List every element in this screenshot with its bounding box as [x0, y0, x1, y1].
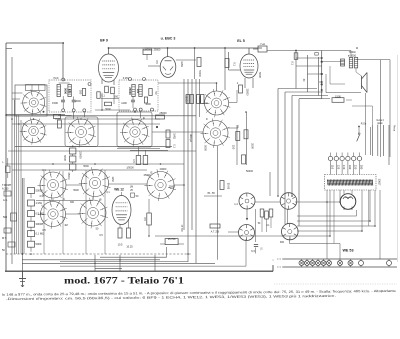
- svg-text:1M: 1M: [130, 187, 133, 189]
- resistor bus pair b: [190, 95, 193, 104]
- wire row y114: [6, 113, 65, 115]
- node speaker bus dots: [321, 61, 323, 63]
- fine print line 1: [2, 289, 396, 297]
- svg-text:25000: 25000: [144, 174, 151, 177]
- wire IF2 link right: [158, 82, 217, 84]
- wire right v380: [380, 60, 382, 157]
- wire S11 right: [174, 184, 184, 186]
- wire cath v237: [236, 125, 238, 165]
- wire drop at 194: [194, 48, 196, 79]
- svg-text:50000: 50000: [36, 189, 44, 193]
- wire mid cluster leads: [261, 217, 263, 232]
- node junction EBC3 topcap: [167, 47, 169, 49]
- wire IF2 bottom drop: [140, 111, 142, 118]
- svg-text:50000: 50000: [246, 170, 254, 173]
- wire ladder v318: [318, 57, 320, 96]
- wire L-bend d: [299, 98, 322, 100]
- resistor mid cluster a: [260, 209, 264, 217]
- heater lamp extra1: [359, 261, 364, 266]
- fine print line 2: [6, 294, 336, 301]
- wire IF2 drop to S5: [216, 83, 218, 91]
- wire spk v365: [364, 93, 366, 155]
- wire P3 left: [228, 231, 239, 233]
- resistor below S4 b: [143, 156, 148, 165]
- wire row y124: [12, 123, 160, 125]
- ground antenna symbol: [19, 272, 26, 287]
- wire P1 drop: [255, 209, 257, 242]
- wire rectifier legs: [343, 190, 345, 194]
- svg-text:1MΩ: 1MΩ: [111, 176, 114, 181]
- svg-text:5000: 5000: [63, 88, 67, 94]
- svg-text:25000: 25000: [159, 111, 167, 115]
- wire below S4 h2: [130, 149, 168, 151]
- wire right quad v1: [371, 125, 373, 156]
- tube P1: [239, 193, 255, 209]
- resistor EL5 leg: [239, 85, 243, 93]
- wire EL5 top: [248, 48, 250, 54]
- coil IF2 primary: [132, 85, 135, 97]
- resistor bus pair c: [197, 95, 200, 104]
- wire P1 cathode arrow: [246, 209, 248, 218]
- svg-text:al 500Ω: al 500Ω: [348, 54, 357, 57]
- wire L-bend c: [292, 95, 328, 97]
- svg-text:A 250: A 250: [2, 188, 9, 191]
- node IF2 bottom terminal 3: [151, 108, 154, 111]
- transformer output primary: [349, 58, 352, 68]
- wire ladder rung4: [319, 81, 322, 83]
- wire fb jog: [352, 105, 372, 107]
- svg-text:25000: 25000: [246, 89, 249, 96]
- wire S6 bottom drop: [216, 146, 218, 260]
- wire row y151: [8, 150, 196, 152]
- wire below S4 h1: [117, 147, 160, 149]
- wire volume leads: [148, 199, 150, 213]
- wire bus x196: [195, 79, 197, 263]
- wire drop x44: [43, 171, 45, 254]
- wire IF1 bottom link: [58, 115, 72, 117]
- svg-text:girad.: girad.: [377, 122, 383, 125]
- wire bottom y263: [22, 262, 215, 264]
- page edge faint right: [397, 55, 399, 262]
- wire WE12 top: [121, 192, 123, 196]
- coil field choke: [341, 59, 345, 66]
- resistor under BF9 c: [97, 92, 100, 99]
- svg-text:1200: 1200: [121, 102, 127, 105]
- component under BF9 d: [105, 102, 112, 106]
- wire under BF9 h2: [95, 109, 130, 111]
- capacitor IF2 trimmer: [131, 100, 135, 102]
- wire cath v246: [245, 112, 247, 165]
- wire EL5 legs: [244, 78, 246, 88]
- resistor below S4 a: [136, 156, 141, 165]
- svg-text:0,25: 0,25: [40, 195, 45, 198]
- transformer output secondary: [354, 58, 357, 68]
- resistor WE12 a: [118, 228, 122, 238]
- resistor bus pair a: [186, 95, 189, 104]
- wire bottom y268: [95, 268, 122, 270]
- wire left border vertical bus: [5, 43, 7, 271]
- wire bm y236: [155, 235, 330, 237]
- wire drop x63: [62, 171, 64, 254]
- resistor cath a: [236, 132, 240, 141]
- node IF2 bottom terminal 2: [139, 108, 142, 111]
- wire ladder rung2: [296, 65, 322, 67]
- resistor BF9 cathode: [111, 87, 115, 94]
- resistor AT: [210, 224, 220, 228]
- svg-text:1MΩ: 1MΩ: [180, 61, 184, 67]
- wire ladder v296: [295, 51, 297, 89]
- svg-text:5000: 5000: [63, 155, 67, 161]
- wire grid bus y48: [109, 47, 263, 49]
- shield box S4: [117, 112, 152, 147]
- wire second left vertical: [11, 57, 13, 264]
- svg-text:0,5: 0,5: [143, 217, 147, 221]
- svg-text:u. EBC 3: u. EBC 3: [161, 37, 176, 41]
- wire heater left stub: [277, 258, 283, 260]
- wire S8 S11 link: [109, 183, 148, 185]
- speaker cone: [362, 73, 368, 93]
- switch mains selector: [357, 135, 360, 142]
- resistor ladder: [294, 53, 298, 60]
- svg-text:1M: 1M: [64, 224, 67, 227]
- svg-text:160: 160: [348, 165, 352, 170]
- svg-text:II M.F.: II M.F.: [123, 77, 130, 80]
- resistor cath b: [244, 130, 248, 139]
- wire row y164: [6, 163, 184, 165]
- wire antenna stub: [6, 48, 12, 50]
- wire row y200: [36, 200, 93, 202]
- svg-text:15.700: 15.700: [168, 238, 176, 241]
- component left box4: [8, 242, 15, 247]
- transformer IF2 shield dashed box: [119, 80, 158, 111]
- wire S5 right stub: [229, 102, 237, 104]
- resistor bias box: [165, 239, 178, 245]
- tube WE12 envelope: [112, 196, 131, 225]
- wire bottom y266: [60, 265, 246, 267]
- svg-text:25000: 25000: [128, 87, 132, 95]
- wire spk top right: [356, 59, 390, 61]
- svg-text:F: F: [143, 117, 145, 121]
- svg-text:0,1 MΩ: 0,1 MΩ: [36, 232, 44, 236]
- wire P2-P4 link: [287, 210, 289, 224]
- svg-text:220: 220: [354, 165, 358, 170]
- wire bm y226: [297, 225, 375, 227]
- wire S7 S8 link: [66, 184, 82, 186]
- svg-text:1MΩ: 1MΩ: [173, 133, 177, 139]
- svg-text:15.700: 15.700: [180, 224, 182, 232]
- svg-text:0,5: 0,5: [155, 60, 159, 64]
- svg-text:5000: 5000: [258, 72, 262, 78]
- rule main bottom: [5, 270, 273, 272]
- wire spk link3: [325, 74, 327, 93]
- component left ant coil: [6, 166, 11, 173]
- svg-text:35-55: 35-55: [227, 183, 230, 190]
- tube P4: [282, 223, 299, 240]
- wire IF1 internal top: [59, 82, 70, 84]
- svg-text:125: 125: [336, 165, 340, 170]
- node IF1 bottom terminal 2: [72, 109, 75, 112]
- svg-text:50000: 50000: [198, 96, 202, 104]
- wire IF1 bottom drop2: [73, 112, 75, 119]
- wire bus x188: [187, 79, 189, 262]
- node IF1 top terminal: [62, 78, 65, 81]
- svg-text:BF 9: BF 9: [100, 39, 108, 43]
- svg-text:470: 470: [68, 89, 72, 94]
- tube P3: [239, 225, 255, 241]
- wire bottom stub x120: [119, 255, 121, 271]
- wire P4 drop: [289, 239, 291, 244]
- wire S5 left stub: [205, 102, 209, 104]
- wire ground pair a: [21, 178, 23, 277]
- wire bottom stub x95: [94, 255, 96, 271]
- svg-text:20000: 20000: [78, 151, 82, 159]
- svg-text:0,1: 0,1: [233, 62, 237, 66]
- svg-text:7+H: 7+H: [260, 42, 265, 46]
- resistor bus pair d: [201, 95, 204, 104]
- resistor col right of S4 a: [166, 130, 170, 138]
- component left box2: [11, 213, 17, 221]
- wire bm y216: [356, 210, 358, 216]
- svg-text:I M.F.: I M.F.: [53, 77, 59, 80]
- svg-text:M.T.: M.T.: [2, 237, 7, 240]
- svg-text:300: 300: [280, 241, 285, 244]
- svg-text:1,4: 1,4: [234, 203, 238, 206]
- capacitor IF1 trimmer 1: [61, 100, 65, 102]
- shield box S3: [65, 117, 98, 147]
- transformer winding hatch: [327, 180, 373, 186]
- node IF1 right terminal: [88, 83, 91, 86]
- tube socket S9: [38, 199, 67, 229]
- tube socket S11: [144, 169, 176, 201]
- wire AVC dashed: [6, 253, 191, 255]
- wire v370 drop: [370, 127, 372, 155]
- wire left v3: [18, 115, 20, 254]
- wire EBC3 topcap: [167, 48, 169, 57]
- svg-text:300 με: 300 με: [189, 134, 193, 143]
- wire L-bend b: [285, 91, 323, 93]
- coil IF2 secondary: [139, 85, 142, 97]
- svg-text:5000: 5000: [36, 242, 42, 246]
- tube socket S4: [120, 117, 149, 146]
- wire antenna top bus: [6, 42, 63, 44]
- svg-text:1/5000: 1/5000: [126, 167, 134, 170]
- svg-text:E: E: [150, 171, 152, 175]
- wire IF1 trim leads: [62, 96, 64, 100]
- svg-text:0,5 MΩ: 0,5 MΩ: [36, 212, 44, 216]
- wire drop to IF1 top: [62, 43, 64, 80]
- wire S4 drops: [138, 147, 140, 156]
- svg-text:1500: 1500: [52, 101, 58, 105]
- svg-text:35 - 55: 35 - 55: [207, 192, 215, 195]
- transformer primary taps: [328, 153, 361, 175]
- rule faint right: [274, 283, 397, 285]
- node IF1 bottom terminal 3: [83, 109, 86, 112]
- svg-text:500: 500: [3, 216, 8, 219]
- resistor feedback: [332, 98, 344, 103]
- wire S4 to S6 upper: [152, 131, 203, 133]
- resistor chain AVC divider: [28, 188, 35, 252]
- wire S7 S9 vert: [52, 199, 54, 202]
- svg-text:20000: 20000: [160, 168, 167, 171]
- resistor between S2 S3: [58, 120, 62, 128]
- resistor cath c: [242, 155, 246, 164]
- resistor IF1 right: [82, 89, 85, 96]
- svg-text:0,1: 0,1: [291, 61, 295, 65]
- svg-text:6,3: 6,3: [251, 249, 255, 253]
- svg-text:300: 300: [70, 201, 75, 204]
- wire bm y221: [297, 220, 370, 222]
- tube socket S5: [202, 89, 230, 117]
- wire bottom stub x155: [154, 255, 156, 271]
- tube P2: [280, 193, 297, 210]
- wire speaker bus x321: [321, 51, 323, 99]
- svg-text:F: F: [206, 117, 208, 121]
- svg-text:5000: 5000: [204, 145, 208, 151]
- tube rectifier: [340, 194, 356, 210]
- wire right quad v4: [388, 125, 390, 165]
- resistor WE12 b: [127, 228, 131, 238]
- svg-text:4, 25000: 4, 25000: [151, 49, 161, 52]
- wire P2 right: [295, 201, 340, 203]
- svg-text:25000: 25000: [67, 173, 70, 181]
- wire transformer to heater: [326, 190, 328, 259]
- wire spk top link: [322, 50, 351, 52]
- wire ground pair b: [23, 178, 25, 254]
- svg-text:mod. 1677 - Telaio 76'1: mod. 1677 - Telaio 76'1: [64, 275, 184, 286]
- component WE12 top box: [131, 193, 135, 197]
- svg-text:10.25: 10.25: [126, 246, 133, 249]
- wire bus x184: [183, 79, 185, 230]
- node S1 junction: [43, 111, 45, 113]
- wire right quad v2: [377, 125, 379, 156]
- wire left v4: [13, 100, 15, 254]
- wire left v5: [16, 115, 18, 254]
- svg-text:1 MΩ: 1 MΩ: [36, 201, 42, 205]
- svg-text:0,1: 0,1: [173, 144, 176, 148]
- wire BF9 topcap: [108, 48, 110, 54]
- wire drop x86: [85, 170, 87, 254]
- resistor EBC3 right bus: [197, 58, 201, 67]
- coil IF1 primary: [57, 85, 60, 97]
- wire drop x105: [104, 170, 106, 254]
- wire bias leads: [160, 243, 165, 245]
- node junction at 194: [194, 47, 196, 49]
- wire y196 arrows: [204, 195, 222, 197]
- tube socket S1 converter: [21, 90, 47, 116]
- svg-text:0,5: 0,5: [132, 159, 135, 163]
- resistor volume: [147, 213, 152, 225]
- wire under BF9 link: [101, 98, 119, 100]
- tube EL5 envelope: [240, 54, 258, 78]
- wire left v6: [20, 120, 22, 254]
- svg-text:25000: 25000: [185, 95, 189, 103]
- tube socket S2: [20, 118, 47, 145]
- wire into box y99: [12, 98, 20, 100]
- wire row y115: [6, 115, 196, 117]
- node IF2 top terminal 2: [143, 78, 146, 81]
- wire bus x199 short: [199, 79, 201, 117]
- svg-text:300: 300: [114, 96, 119, 99]
- tube EBC3 envelope: [160, 57, 176, 78]
- wire bottom y257: [100, 256, 167, 258]
- node junction bus bf9: [108, 47, 110, 49]
- tube socket S10: [77, 198, 108, 229]
- node dots batch: [62, 42, 64, 44]
- svg-text:Verso il: Verso il: [376, 119, 384, 122]
- wire right v390: [389, 60, 391, 157]
- resistor IF2 right: [149, 89, 152, 96]
- node dot el5grid: [295, 50, 297, 52]
- wire row y170: [12, 169, 147, 171]
- svg-text:5000: 5000: [73, 189, 79, 192]
- tube socket S3: [65, 117, 96, 148]
- node dark junction S4: [156, 126, 158, 128]
- wire IF1 drop3: [83, 112, 85, 117]
- svg-text:2500: 2500: [251, 143, 255, 149]
- resistor BF9 screen: [105, 86, 109, 93]
- wire heater bus top: [283, 258, 397, 260]
- node ladder dots: [321, 57, 323, 59]
- transformer mains box: [325, 175, 377, 191]
- component near S2 top: [54, 115, 61, 119]
- coil oscillator sections: [26, 85, 46, 91]
- wire spk link4: [329, 66, 331, 84]
- svg-text:2000: 2000: [75, 100, 81, 103]
- heater lamp extra2: [387, 261, 392, 266]
- component left box1: [4, 191, 11, 196]
- svg-text:1000: 1000: [145, 103, 151, 106]
- svg-text:5000: 5000: [105, 108, 111, 111]
- svg-text:1500: 1500: [335, 94, 341, 98]
- wire EBC3 plate right: [176, 59, 196, 61]
- rule corner tick: [272, 265, 274, 271]
- transformer IF1 shield dashed box: [49, 80, 91, 112]
- resistor col right of S4 b: [166, 140, 170, 148]
- wire EL5 box link: [253, 48, 258, 50]
- wire BF9 right leg: [113, 80, 115, 85]
- capacitor C coupling: [143, 50, 152, 55]
- shield box oscillator: [15, 85, 47, 116]
- svg-text:100: 100: [136, 89, 140, 94]
- wire EL5 grid left: [229, 69, 241, 71]
- wire L-bend a: [278, 88, 317, 90]
- wire plate load vertical 225: [224, 48, 226, 90]
- resistor IF2 mid: [144, 97, 147, 103]
- svg-text:280: 280: [360, 165, 364, 170]
- wire WE12 legs: [119, 225, 121, 229]
- wire P3 drop: [245, 239, 247, 258]
- wire cap drop: [146, 55, 148, 61]
- resistor plate load: [225, 59, 229, 68]
- resistor right of S4: [156, 115, 165, 119]
- resistor mid cluster b: [265, 211, 269, 219]
- tube socket S6: [201, 118, 230, 147]
- wire S9 S10 link: [66, 213, 81, 215]
- heater lamps string: [299, 259, 353, 267]
- svg-text:30000: 30000: [36, 222, 44, 226]
- wire BF9 legs drop: [101, 93, 103, 110]
- svg-text:A.T. 250: A.T. 250: [211, 231, 220, 234]
- wire plate load vertical 228: [228, 52, 230, 70]
- svg-text:R.Os: R.Os: [361, 123, 367, 126]
- coil IF1 secondary: [68, 85, 71, 97]
- resistor S6 bottom: [220, 181, 224, 190]
- svg-text:WE 53: WE 53: [342, 249, 353, 253]
- wire right quad v3: [383, 125, 385, 156]
- wire S8 S10 vert: [92, 197, 94, 200]
- wire ladder rung3: [308, 73, 322, 75]
- svg-text:A.C.: A.C.: [3, 199, 8, 202]
